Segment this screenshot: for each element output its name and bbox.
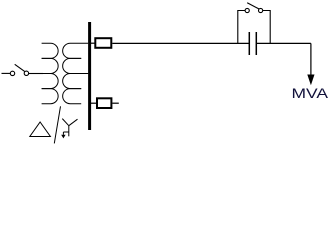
svg-text:MVA: MVA — [292, 86, 330, 101]
